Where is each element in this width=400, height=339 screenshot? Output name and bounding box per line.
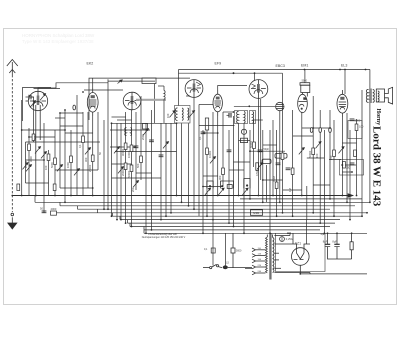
resistor R19 <box>281 153 284 160</box>
wire top rail 2 <box>179 72 283 74</box>
wire V2 cathode drop <box>131 110 133 227</box>
oscillator coil pair <box>125 127 132 135</box>
wire can drop <box>279 111 281 203</box>
wire switch feed b <box>225 233 227 266</box>
wire link af <box>263 144 277 146</box>
svg-text:10000: 10000 <box>208 150 212 158</box>
bus line 11 <box>144 229 320 231</box>
svg-text:150: 150 <box>346 167 351 170</box>
mains switch <box>203 264 252 269</box>
wire link aa <box>203 186 223 188</box>
wire link ar <box>199 125 235 127</box>
trimmer P7 <box>85 148 91 155</box>
electrolytic can <box>276 102 284 110</box>
bus step <box>112 213 114 216</box>
bus line 7 <box>113 215 363 217</box>
svg-text:EL3: EL3 <box>341 64 347 68</box>
svg-text:50000: 50000 <box>249 140 253 148</box>
detector cap <box>241 129 246 134</box>
trimmer P5 <box>57 165 63 172</box>
svg-text:20000: 20000 <box>121 168 125 176</box>
wire EBC3 top drop <box>254 73 256 80</box>
svg-text:100: 100 <box>359 125 364 129</box>
fuse <box>280 237 285 242</box>
detector resistor <box>241 138 248 142</box>
wire v83 <box>82 112 84 196</box>
mains selector taps <box>252 248 266 275</box>
bus line 12 <box>144 232 367 234</box>
wire v324 <box>323 130 325 233</box>
wire link r <box>199 104 213 106</box>
speaker <box>376 87 392 104</box>
svg-text:Horny: Horny <box>375 108 381 125</box>
bus line 5 <box>78 208 331 210</box>
wire link j <box>26 141 101 143</box>
svg-text:20000: 20000 <box>24 160 28 168</box>
resistor R13 <box>130 165 133 172</box>
wire v266 <box>266 165 268 202</box>
svg-text:150: 150 <box>329 155 333 160</box>
capacitor bead C19 <box>73 105 76 110</box>
svg-text:0,5M: 0,5M <box>255 170 259 176</box>
tone capacitor box <box>275 154 287 159</box>
resistor R3 <box>47 154 50 161</box>
svg-text:50000: 50000 <box>127 170 131 178</box>
bus line 4 <box>60 205 355 207</box>
tube EL3 oval <box>337 90 348 117</box>
wire link o <box>112 177 162 179</box>
wire v273 <box>272 120 274 196</box>
bus step <box>143 227 145 234</box>
wire EL3 top drop <box>344 70 346 95</box>
wire v155 <box>151 110 153 230</box>
mains lead <box>245 267 252 269</box>
wire v171 <box>170 123 172 213</box>
wire stage box A top <box>89 78 190 120</box>
wire v188 <box>188 123 190 206</box>
svg-text:0,3M: 0,3M <box>272 176 276 182</box>
wire v108 <box>107 79 109 209</box>
wire link an <box>60 125 83 127</box>
wire link a <box>34 88 61 90</box>
resistor R23 <box>333 150 336 157</box>
wire v350 <box>349 130 351 220</box>
capacitor C2 box <box>51 211 57 215</box>
wire v136 <box>135 112 137 190</box>
wire link ac <box>254 119 263 121</box>
resistor R17 <box>253 142 256 149</box>
wire link s <box>223 111 234 113</box>
tube EK2 oval <box>87 88 98 116</box>
capacitor C7 <box>227 150 232 152</box>
resistor R12 <box>124 163 127 170</box>
resistor R10 <box>124 143 127 150</box>
svg-text:300: 300 <box>218 175 222 180</box>
wire v29 <box>28 128 30 196</box>
wire link am <box>342 142 356 144</box>
svg-text:NSB: NSB <box>253 211 259 215</box>
capacitor C9 <box>276 163 281 165</box>
wire v141 <box>140 96 142 180</box>
svg-text:5000: 5000 <box>50 162 54 168</box>
IF transformer 2 <box>235 111 248 124</box>
wire link ap <box>112 163 132 165</box>
svg-text:2000: 2000 <box>141 134 145 140</box>
trimmer P16 <box>299 148 305 155</box>
antenna <box>7 60 18 213</box>
potentiometer 1 <box>205 181 213 195</box>
svg-text:10000: 10000 <box>127 150 131 158</box>
bus step <box>34 196 36 203</box>
resistor R5 <box>70 156 73 163</box>
wire v260 <box>260 99 262 180</box>
dial box V2 <box>142 78 156 84</box>
capacitor bead C16 <box>319 128 322 133</box>
capacitor C2 <box>42 211 47 213</box>
resistor R2 <box>32 134 35 141</box>
wire link u <box>203 132 218 134</box>
wire link d <box>60 112 83 114</box>
capacitor bead C17 <box>329 128 332 133</box>
low wire c <box>351 256 353 259</box>
capacitor C3 <box>134 146 139 148</box>
wire link aq <box>136 172 152 174</box>
wire v250 <box>249 130 251 199</box>
tube V2 circle <box>123 92 141 110</box>
wire v253 <box>253 120 255 167</box>
rectifier box <box>276 233 326 271</box>
tube EBC3 circle <box>249 80 268 99</box>
mechanical link <box>136 99 166 101</box>
wire link g <box>22 129 65 131</box>
wire link p <box>26 182 49 184</box>
trimmer P8 <box>114 147 120 154</box>
block capacitor on v207 <box>205 118 208 130</box>
wire speaker drop <box>361 90 363 216</box>
resistor R11 <box>130 145 133 152</box>
wire link ab <box>263 179 283 181</box>
wire agc line <box>108 80 155 82</box>
wire link l <box>115 151 177 153</box>
trimmer P6 <box>74 169 80 176</box>
trimmer P11 <box>143 129 149 136</box>
tube EM1 magic eye <box>298 83 310 113</box>
oscillator coil <box>158 86 165 123</box>
capacitor C4 <box>149 140 154 142</box>
wire link w <box>250 150 285 152</box>
wire v244 <box>243 123 245 233</box>
resistor R26 <box>343 162 346 169</box>
svg-text:1000: 1000 <box>66 162 70 168</box>
wire v330 <box>329 110 331 199</box>
wire v98 <box>97 112 99 170</box>
trimmer P3 <box>35 147 41 154</box>
mains cap <box>231 233 235 267</box>
svg-text:20000: 20000 <box>88 164 92 172</box>
wire v306 <box>306 186 308 220</box>
bus line 3 <box>35 201 370 203</box>
resistor R24 <box>354 150 357 157</box>
ground <box>8 213 17 229</box>
coupling box <box>262 159 271 163</box>
wire v48 <box>48 150 50 196</box>
wire EF9 cathode drop <box>217 116 219 196</box>
bus line 8 <box>120 219 340 221</box>
low wire a <box>328 256 352 259</box>
wire v276 <box>276 130 278 216</box>
wire EM1 top <box>304 70 306 83</box>
wire link ai <box>229 169 244 171</box>
volume pot <box>256 163 263 171</box>
svg-text:AZ1: AZ1 <box>295 242 301 246</box>
capacitor C8 <box>258 150 263 152</box>
wire link x <box>329 159 341 161</box>
IFT1 trimmer2 <box>189 111 195 118</box>
wire switch feed <box>212 220 214 266</box>
wire v104 <box>103 120 105 209</box>
svg-text:4µF: 4µF <box>321 232 326 236</box>
trimmer P9 <box>118 167 124 174</box>
svg-text:EK2: EK2 <box>87 62 94 66</box>
wire v320 <box>319 110 321 223</box>
svg-text:Netzspannungen 110 125 150 220: Netzspannungen 110 125 150 220 240 V <box>142 236 186 239</box>
bus line 6 <box>57 212 368 214</box>
wire link c <box>28 96 34 98</box>
svg-text:1M: 1M <box>288 188 292 192</box>
wire link ae <box>293 135 314 137</box>
wire link ao <box>65 132 93 134</box>
wire EBC3 cathode drop <box>257 98 259 195</box>
wire v313 <box>312 96 314 213</box>
trimmer P14 <box>316 142 322 149</box>
wire EF9 top <box>218 86 247 91</box>
svg-text:100: 100 <box>166 113 170 118</box>
svg-text:EM1: EM1 <box>301 64 308 68</box>
resistor R8 <box>17 184 20 191</box>
capacitor C12 <box>350 163 355 165</box>
agc arrow <box>118 80 123 84</box>
wire v233 <box>233 116 235 227</box>
resistor R15 <box>206 148 209 155</box>
padder capacitor <box>143 124 148 130</box>
wire link m <box>26 159 45 161</box>
wire v334 <box>333 120 335 216</box>
svg-text:EF9: EF9 <box>215 62 222 66</box>
bus step <box>97 209 99 213</box>
wire link aj <box>234 161 251 163</box>
svg-text:500: 500 <box>33 135 37 140</box>
trimmer P12 <box>163 142 169 149</box>
heater wire b <box>289 233 291 235</box>
bus step <box>127 220 129 224</box>
wire v213 <box>212 112 214 220</box>
bus line 2 <box>240 198 362 200</box>
IFT2 cap <box>227 113 232 118</box>
wire v199 <box>198 105 200 217</box>
wire band link b <box>117 119 132 121</box>
wire v21 <box>21 100 23 196</box>
potentiometer 3 <box>243 179 251 195</box>
wire v121 <box>120 123 122 220</box>
wire link al <box>313 184 330 186</box>
wire link y <box>341 164 356 166</box>
resistor R16 <box>222 168 225 175</box>
wire v270 <box>269 130 271 233</box>
wire v238 <box>238 123 240 195</box>
power bottom wire <box>300 270 367 274</box>
resistor R9 <box>53 184 56 191</box>
wire OT feed <box>369 70 371 89</box>
capacitor C5 <box>159 155 164 157</box>
bus step <box>119 216 121 219</box>
IF transformer 1 <box>175 106 191 124</box>
trimmer P4 <box>41 152 47 159</box>
wire v207 <box>206 130 208 216</box>
wire box V1 top <box>23 88 52 122</box>
wire v181 <box>181 123 183 202</box>
wire v223 <box>222 112 224 187</box>
tube EF9 oval <box>213 90 222 116</box>
wire v229 <box>228 130 230 223</box>
capacitor C6 <box>201 132 206 134</box>
wire v44 <box>43 123 45 213</box>
resistor R18 <box>275 182 278 189</box>
wire link f <box>112 122 177 124</box>
wire v111 <box>111 123 113 216</box>
bus arrow <box>348 194 353 198</box>
wire link n <box>55 169 98 171</box>
tube V1 circle <box>26 91 48 195</box>
bus line 10 <box>130 226 330 228</box>
wire EBC3 grid line <box>234 105 275 107</box>
svg-text:50pF: 50pF <box>264 148 270 151</box>
resistor R20 <box>291 168 294 175</box>
bus line 9 <box>128 222 336 224</box>
wire link k <box>110 146 136 148</box>
bus step <box>59 202 61 206</box>
wire EK2 top <box>92 78 94 88</box>
svg-text:EBC3: EBC3 <box>276 64 285 68</box>
wire v71 <box>70 130 72 196</box>
wire v117 <box>116 123 118 220</box>
dial lamp box <box>251 210 263 216</box>
resistor R6 <box>82 136 85 143</box>
EL3 grid box <box>348 121 362 139</box>
wire v33 <box>33 97 35 142</box>
wire dial box drop <box>154 84 156 124</box>
wire v262 <box>262 130 264 202</box>
wire v347 <box>346 113 348 202</box>
wire V1 anode link <box>38 83 108 92</box>
svg-text:5000: 5000 <box>355 119 361 123</box>
svg-text:0,1: 0,1 <box>78 144 82 148</box>
wire rail drop IFT1 <box>178 70 180 106</box>
trimmer P13 <box>210 157 216 164</box>
wire link i <box>29 136 55 138</box>
svg-text:5000: 5000 <box>236 250 242 253</box>
svg-text:50000: 50000 <box>308 150 312 158</box>
wire link ag <box>307 157 325 159</box>
paper frame <box>4 29 397 305</box>
wire link ah <box>203 175 218 177</box>
wire v65 <box>64 110 66 202</box>
resistor R22 <box>312 148 315 155</box>
wire top rail 1 <box>179 69 371 71</box>
wire rail2 end drop <box>282 73 284 120</box>
svg-text:30000: 30000 <box>121 148 125 156</box>
wire v60 <box>59 113 61 188</box>
secondary leads <box>274 236 310 273</box>
bus line 1 main <box>12 195 349 197</box>
svg-text:0,1: 0,1 <box>198 136 202 140</box>
svg-text:500: 500 <box>136 163 140 168</box>
wire v55 <box>54 130 56 196</box>
wire v125 <box>125 112 127 223</box>
wire band link a <box>112 116 126 118</box>
resistor R4 <box>54 158 57 165</box>
wire v292 <box>292 110 294 216</box>
wire v356 <box>356 119 358 196</box>
wire EK2 grid link <box>84 89 123 91</box>
wire v161 <box>160 123 162 220</box>
svg-text:100: 100 <box>315 153 319 158</box>
trimmer P10 <box>133 181 139 188</box>
wire link v <box>239 140 251 142</box>
capacitor on switch feed <box>211 248 215 253</box>
capacitor C1 <box>26 95 35 100</box>
svg-text:Type W E 143 Empfaenger 1937: Type W E 143 Empfaenger 1937/38 <box>22 39 94 44</box>
svg-text:200: 200 <box>131 187 135 192</box>
power transformer <box>266 234 274 280</box>
wire v25 <box>25 142 27 183</box>
bus step <box>77 206 79 209</box>
svg-text:8µF: 8µF <box>323 240 328 244</box>
wire v283 <box>282 120 284 213</box>
resistor R7 <box>91 155 94 162</box>
svg-text:300: 300 <box>84 157 88 162</box>
junction dots <box>11 195 13 197</box>
wire v166 <box>165 123 167 216</box>
output transformer <box>366 89 374 104</box>
wire v77 <box>76 95 78 196</box>
wire link q <box>60 187 93 189</box>
EL3 cathode box <box>340 160 364 176</box>
tube V3 circle <box>185 80 203 98</box>
wire V3 cathode drop <box>193 97 195 209</box>
wire link h <box>110 129 150 131</box>
wire heater feed <box>306 220 308 244</box>
wire link ad <box>186 95 190 97</box>
IFT2 secondary <box>250 111 256 124</box>
capacitor C10 <box>286 168 291 170</box>
capacitor C11 <box>350 119 355 121</box>
trimmer P2 <box>26 165 32 172</box>
trimmer P15 <box>339 147 345 154</box>
wire IFT1 drop <box>176 123 178 196</box>
resistor R14 <box>140 156 143 163</box>
svg-text:8µF: 8µF <box>332 240 337 244</box>
wire v203 <box>202 130 204 233</box>
rectifier AZ1 <box>292 244 311 270</box>
potentiometer 2 <box>219 181 234 195</box>
capacitor bead C15 <box>310 128 313 133</box>
wire link t <box>302 127 330 129</box>
trimmer P1 <box>23 163 29 170</box>
svg-text:4000: 4000 <box>51 207 57 211</box>
bus step <box>129 223 131 226</box>
wire EL3 cathode drop <box>341 117 343 196</box>
wire OT return <box>369 103 371 202</box>
